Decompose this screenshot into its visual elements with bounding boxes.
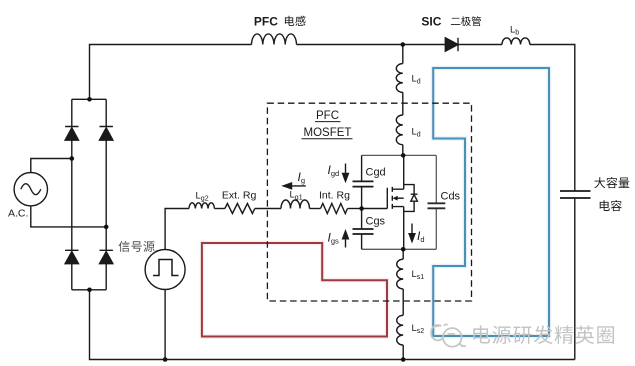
svg-text:Ext. Rg: Ext. Rg <box>222 190 257 202</box>
svg-text:PFC: PFC <box>254 15 278 29</box>
svg-text:MOSFET: MOSFET <box>304 127 352 139</box>
svg-text:PFC: PFC <box>316 110 339 122</box>
svg-text:Cgd: Cgd <box>366 167 386 179</box>
svg-text:A.C.: A.C. <box>8 208 28 220</box>
svg-text:Cds: Cds <box>441 191 461 203</box>
svg-text:Cgs: Cgs <box>366 216 386 228</box>
svg-text:SIC: SIC <box>421 15 441 29</box>
svg-text:Int. Rg: Int. Rg <box>319 190 350 202</box>
